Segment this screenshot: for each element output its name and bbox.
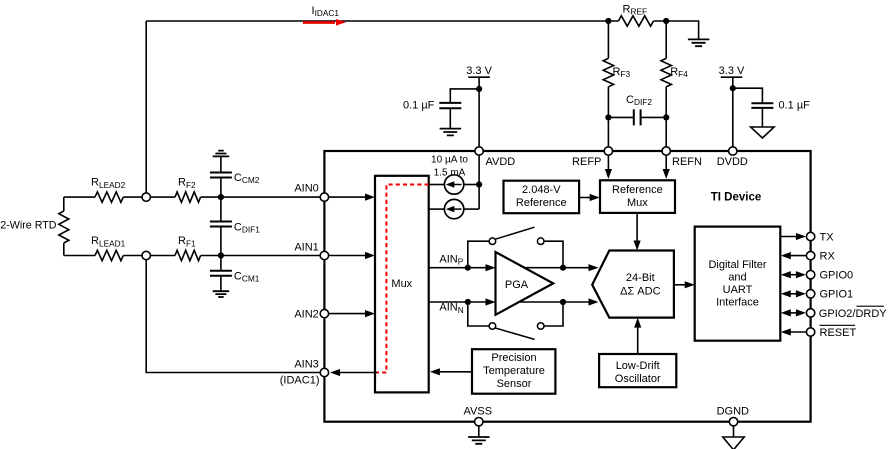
svg-text:Reference: Reference bbox=[516, 197, 567, 209]
svg-text:RLEAD1: RLEAD1 bbox=[91, 235, 126, 248]
svg-text:24-Bit: 24-Bit bbox=[626, 272, 655, 284]
svg-text:CDIF2: CDIF2 bbox=[626, 94, 652, 107]
wire switch bottom to PGA output bbox=[544, 302, 563, 326]
current source IDAC lower bbox=[444, 199, 463, 218]
capacitor CCM1 bbox=[210, 271, 232, 276]
pin GPIO0 bbox=[806, 271, 814, 279]
pin RESET bbox=[806, 328, 814, 336]
svg-text:2.048-V: 2.048-V bbox=[522, 184, 561, 196]
svg-text:RF3: RF3 bbox=[613, 66, 631, 79]
svg-text:RLEAD2: RLEAD2 bbox=[91, 177, 126, 190]
pin REFP bbox=[604, 147, 612, 155]
node AINP bbox=[465, 265, 471, 271]
wire RF3 bottom to REFP pin bbox=[607, 87, 609, 147]
svg-text:Temperature: Temperature bbox=[483, 365, 545, 377]
wire CDIF2 right lead bbox=[641, 116, 667, 118]
wire mux to CS2 bbox=[429, 208, 445, 210]
current source IDAC upper bbox=[444, 175, 463, 194]
capacitor CCM2 bbox=[210, 173, 232, 178]
resistor RF1 bbox=[175, 250, 201, 260]
node RREF left / RF3 top bbox=[605, 18, 611, 24]
wire to AVDD bypass cap bbox=[450, 89, 479, 103]
capacitor 0.1uF DVDD bbox=[751, 103, 773, 108]
pin AIN3 (IDAC1) bbox=[320, 368, 328, 376]
2.048-V reference block bbox=[504, 181, 580, 214]
pin AIN0 bbox=[320, 193, 328, 201]
svg-text:3.3 V: 3.3 V bbox=[466, 65, 492, 77]
wire junction to RF2 bbox=[150, 196, 175, 198]
wire PGA output bottom to ADC bbox=[520, 301, 589, 303]
wire reference mux to ADC bbox=[636, 213, 638, 242]
reference mux block bbox=[600, 180, 675, 213]
svg-text:Mux: Mux bbox=[391, 278, 412, 290]
wire CCM1 to ground bbox=[220, 276, 222, 291]
pin GPIO1 bbox=[806, 290, 814, 298]
node RREF right / RF4 top bbox=[663, 18, 669, 24]
svg-text:IIDAC1: IIDAC1 bbox=[312, 5, 340, 18]
svg-text:TI Device: TI Device bbox=[711, 191, 762, 203]
svg-text:RF2: RF2 bbox=[178, 177, 196, 190]
wire GPIO0 bbox=[788, 274, 798, 276]
wire junction to RF1 bbox=[150, 255, 175, 257]
svg-text:2-Wire RTD: 2-Wire RTD bbox=[0, 219, 56, 231]
node AINN bbox=[465, 299, 471, 305]
wire AIN1 to mux bbox=[329, 255, 366, 257]
node AVDD cap tap bbox=[476, 86, 482, 92]
svg-text:Low-Drift: Low-Drift bbox=[616, 360, 660, 372]
pin AVDD bbox=[475, 147, 483, 155]
op-amp PGA bbox=[496, 252, 554, 315]
wire DVDD cap to ground bbox=[761, 108, 763, 127]
svg-text:and: and bbox=[728, 272, 746, 284]
node PGA out top bbox=[560, 265, 566, 271]
wire to DVDD bypass cap bbox=[733, 88, 763, 103]
svg-text:Interface: Interface bbox=[716, 297, 759, 309]
resistor RTD (2-wire) bbox=[59, 211, 69, 243]
wire node to CDIF1 bbox=[220, 197, 222, 221]
svg-text:10 µA to: 10 µA to bbox=[431, 154, 468, 165]
pin AIN2 bbox=[320, 309, 328, 317]
wire ADC to digital filter bbox=[674, 284, 685, 286]
svg-text:PGA: PGA bbox=[505, 279, 529, 291]
mux block bbox=[375, 176, 429, 393]
node junction IDAC1 bottom bbox=[142, 251, 150, 259]
node DVDD cap tap bbox=[730, 85, 736, 91]
wire AINP up to switch bbox=[468, 241, 489, 268]
wire RF3 top bbox=[607, 21, 609, 58]
wire GPIO2/DRDY bbox=[788, 312, 798, 314]
wire RF2 to AIN0 pin bbox=[201, 196, 321, 198]
svg-text:ΔΣ ADC: ΔΣ ADC bbox=[620, 285, 660, 297]
node CCM2 tap bbox=[218, 194, 224, 200]
node PGA out bottom bbox=[560, 299, 566, 305]
svg-text:UART: UART bbox=[723, 284, 753, 296]
wire AVSS ground stub bbox=[478, 426, 480, 437]
pin RX bbox=[806, 251, 814, 259]
wire AVDD cap to ground bbox=[449, 108, 451, 128]
wire RESET bbox=[789, 331, 806, 333]
wire RLEAD1 to junction bbox=[123, 255, 142, 257]
supply bar 3.3V AVDD bbox=[468, 76, 490, 78]
pin GPIO2/DRDY bbox=[806, 309, 814, 317]
ground DGND (triangle) bbox=[723, 437, 744, 449]
svg-text:AIN1: AIN1 bbox=[294, 241, 318, 253]
supply bar 3.3V DVDD bbox=[721, 76, 743, 78]
wire RTD bottom to RLEAD1 bbox=[64, 255, 95, 257]
wire RF4 bottom to REFN pin bbox=[665, 87, 667, 147]
digital filter and UART block bbox=[695, 227, 781, 341]
wire oscillator to ADC bbox=[637, 327, 639, 355]
wire CS2 to AVDD line bbox=[464, 208, 479, 210]
svg-text:RREF: RREF bbox=[623, 4, 648, 17]
svg-text:GPIO0: GPIO0 bbox=[820, 270, 854, 282]
wire mux to AINN node bbox=[429, 301, 487, 303]
wire AINN down to switch bbox=[468, 302, 489, 326]
svg-text:CDIF1: CDIF1 bbox=[234, 221, 260, 234]
pin AIN1 bbox=[320, 251, 328, 259]
resistor RLEAD2 bbox=[95, 192, 123, 202]
resistor RREF bbox=[618, 16, 653, 26]
wire RX bbox=[789, 255, 806, 257]
svg-text:GPIO2/DRDY: GPIO2/DRDY bbox=[819, 308, 888, 320]
capacitor 0.1uF AVDD bbox=[439, 103, 461, 108]
ground AVDD cap bbox=[440, 129, 462, 136]
svg-text:DVDD: DVDD bbox=[717, 156, 748, 168]
node RF3/CDIF2 bbox=[605, 114, 611, 120]
node CCM1 tap bbox=[218, 252, 224, 258]
svg-text:Precision: Precision bbox=[491, 352, 536, 364]
resistor RF4 bbox=[661, 58, 671, 86]
wire AIN2 to mux bbox=[329, 313, 366, 315]
svg-text:Sensor: Sensor bbox=[497, 378, 532, 390]
svg-text:Oscillator: Oscillator bbox=[615, 373, 661, 385]
resistor RLEAD1 bbox=[95, 250, 123, 260]
svg-text:Mux: Mux bbox=[627, 197, 648, 209]
wire RREF right to ground corner bbox=[654, 21, 699, 39]
svg-text:RF1: RF1 bbox=[178, 235, 196, 248]
ground at RREF right bbox=[688, 39, 710, 46]
wire RF4 top bbox=[665, 21, 667, 58]
svg-text:AVDD: AVDD bbox=[486, 156, 516, 168]
wire RTD top to RLEAD2 bbox=[64, 196, 95, 198]
wire DGND ground stub bbox=[733, 426, 735, 437]
wire RTD top lead bbox=[63, 197, 65, 211]
pin REFN bbox=[662, 147, 670, 155]
resistor RF2 bbox=[175, 192, 201, 202]
wire RF1 to AIN1 pin bbox=[201, 255, 321, 257]
wire REFP to reference mux bbox=[607, 155, 609, 170]
wire REFN to reference mux bbox=[665, 155, 667, 170]
svg-text:REFN: REFN bbox=[672, 156, 702, 168]
low-drift oscillator block bbox=[599, 354, 676, 387]
wire AVDD pin down to current sources bbox=[478, 155, 480, 209]
IDAC1 internal route (red dashed) bbox=[377, 185, 429, 373]
svg-text:REFP: REFP bbox=[572, 156, 601, 168]
capacitor CDIF2 bbox=[634, 109, 641, 125]
svg-text:0.1 µF: 0.1 µF bbox=[403, 100, 435, 112]
svg-text:AIN2: AIN2 bbox=[294, 309, 318, 321]
svg-text:AIN0: AIN0 bbox=[294, 183, 318, 195]
precision temperature sensor block bbox=[472, 349, 555, 394]
wire AIN0 to mux bbox=[329, 196, 366, 198]
svg-text:0.1 µF: 0.1 µF bbox=[779, 100, 811, 112]
wire CDIF1 to bottom node bbox=[220, 227, 222, 256]
wire top rail from left vertical to RREF bbox=[146, 20, 618, 22]
pin TX bbox=[806, 232, 814, 240]
wire left vertical from top rail to junction bbox=[145, 21, 147, 193]
svg-text:Reference: Reference bbox=[612, 184, 663, 196]
wire DVDD supply vertical bbox=[732, 77, 734, 147]
svg-text:CCM1: CCM1 bbox=[234, 270, 260, 283]
ground CCM1 bbox=[213, 291, 230, 297]
wire AVDD supply vertical bbox=[478, 77, 480, 147]
svg-text:CCM2: CCM2 bbox=[234, 172, 260, 185]
svg-text:RX: RX bbox=[820, 251, 836, 263]
svg-text:RESET: RESET bbox=[820, 327, 857, 339]
svg-text:AIN3: AIN3 bbox=[294, 358, 318, 370]
ADC 24-bit delta-sigma block bbox=[592, 251, 674, 318]
pin DVDD bbox=[729, 147, 737, 155]
wire vref to reference mux bbox=[579, 197, 590, 199]
resistor RF3 bbox=[603, 58, 613, 86]
TI device outline box bbox=[324, 151, 810, 422]
svg-text:3.3 V: 3.3 V bbox=[719, 65, 745, 77]
wire CDIF2 left lead bbox=[608, 116, 633, 118]
capacitor CDIF1 bbox=[210, 222, 232, 227]
svg-text:AVSS: AVSS bbox=[464, 406, 493, 418]
wire IDAC1 return vertical bbox=[146, 260, 320, 373]
pin DGND bbox=[729, 418, 737, 426]
wire ground to CCM2 bbox=[220, 156, 222, 172]
wire temperature sensor to mux bbox=[438, 371, 472, 373]
wire PGA output top to ADC bbox=[523, 267, 589, 269]
svg-text:DGND: DGND bbox=[717, 406, 749, 418]
wire node to CCM1 bbox=[220, 256, 222, 272]
svg-text:Digital Filter: Digital Filter bbox=[708, 259, 766, 271]
node RF4/CDIF2 bbox=[663, 114, 669, 120]
wire mux to AIN3 (IDAC1 out) bbox=[339, 372, 377, 374]
wire GPIO1 bbox=[788, 293, 798, 295]
svg-text:GPIO1: GPIO1 bbox=[820, 289, 854, 301]
IDAC1 red current arrow bbox=[303, 21, 335, 24]
pin AVSS bbox=[475, 418, 483, 426]
wire CS1 to AVDD line bbox=[464, 184, 479, 186]
svg-text:TX: TX bbox=[820, 231, 835, 243]
node junction IDAC1 top bbox=[142, 193, 150, 201]
wire CCM2 to node bbox=[220, 178, 222, 198]
node AVDD/CS1 bbox=[476, 181, 482, 187]
switch PGA bypass bottom bbox=[489, 323, 496, 330]
svg-text:RF4: RF4 bbox=[670, 66, 688, 79]
wire TX bbox=[780, 236, 797, 238]
wire mux to CS1 bbox=[429, 184, 445, 186]
wire switch top to PGA output bbox=[544, 241, 563, 268]
wire mux to AINP node bbox=[429, 267, 487, 269]
ground AVSS bbox=[468, 437, 490, 444]
ground DVDD cap (triangle) bbox=[751, 127, 775, 138]
wire RLEAD2 to junction bbox=[123, 196, 142, 198]
wire RTD bottom lead bbox=[63, 243, 65, 256]
svg-text:(IDAC1): (IDAC1) bbox=[280, 374, 320, 386]
switch PGA bypass top bbox=[489, 238, 496, 245]
ground CCM2 (flipped) bbox=[213, 151, 230, 157]
